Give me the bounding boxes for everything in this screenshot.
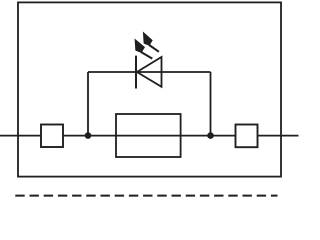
- node junction left: [85, 132, 92, 139]
- LED D1 anode triangle: [137, 57, 162, 87]
- wire LED branch top horizontal: [88, 71, 211, 73]
- terminal clamp right: [236, 125, 258, 148]
- LED D1 emission arrow upper: [144, 33, 159, 52]
- LED D1 cathode bar: [135, 56, 137, 89]
- wire main conductor: [0, 135, 299, 137]
- wire LED branch right vertical: [210, 72, 212, 136]
- terminal block housing outline: [18, 2, 281, 176]
- terminal clamp left: [41, 125, 63, 148]
- node junction right: [207, 132, 214, 139]
- component body: [116, 114, 181, 157]
- dashed mounting rail line: [15, 195, 277, 197]
- wire LED branch left vertical: [87, 72, 89, 136]
- LED D1 emission arrow lower: [135, 40, 152, 59]
